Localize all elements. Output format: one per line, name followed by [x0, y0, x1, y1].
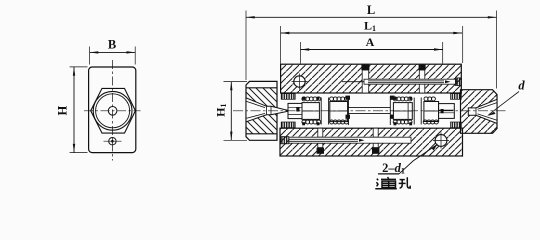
right fitting cone bore — [468, 99, 497, 123]
horizontal centerline — [84, 110, 141, 112]
top passage — [364, 79, 456, 84]
bottom channel left lower part — [318, 143, 323, 147]
right fitting body — [461, 90, 498, 134]
lower plate — [280, 128, 463, 156]
P1 spring retainer blocks — [302, 97, 305, 100]
svg-text:B: B — [108, 37, 116, 51]
dim B line — [90, 51, 136, 53]
svg-text:L: L — [367, 3, 375, 17]
top plug right (black) — [419, 65, 426, 71]
top passage lead-in line — [342, 81, 364, 83]
2-d1 leader arrowhead — [431, 144, 438, 151]
top pilot channel right (white) — [419, 70, 425, 93]
top passage rod tip — [445, 80, 451, 83]
bottom passage plug left (threads) — [281, 137, 289, 144]
bottom passage rod — [289, 139, 358, 141]
left fitting cone bore — [246, 98, 288, 122]
svg-text:A: A — [366, 35, 375, 49]
right cone inner lines — [478, 103, 498, 121]
cartridge end faces — [349, 96, 391, 125]
mount hole bottom (right) — [435, 135, 447, 147]
port outer circle — [93, 91, 132, 130]
P1 spring top — [302, 97, 321, 101]
poppet P1 — [302, 103, 319, 120]
dim H line — [73, 67, 75, 153]
dim B arrowheads — [90, 51, 99, 53]
dim L line — [246, 16, 497, 18]
dim H1 line — [230, 82, 232, 141]
poppet P2 — [330, 102, 348, 122]
top passage rod — [368, 81, 444, 83]
P2 spring top — [330, 97, 349, 101]
left seat threads top — [281, 94, 295, 100]
left plug body — [288, 103, 302, 118]
port inner circle — [96, 94, 130, 128]
right seat threads top — [451, 94, 462, 100]
d leader arrowhead — [487, 112, 496, 116]
left cone inner lines — [246, 101, 265, 118]
left fitting hatch — [246, 88, 277, 134]
mount hole top (left) — [294, 76, 305, 87]
mount hole bottom crosshair — [433, 133, 449, 149]
svg-text:H: H — [56, 105, 70, 115]
top plug left (black) — [361, 65, 369, 71]
dim H1 extension lines — [224, 82, 248, 141]
bottom plug left (black) — [317, 148, 324, 154]
dim A line — [301, 49, 443, 51]
lower hole — [109, 138, 116, 145]
svg-text:d: d — [518, 79, 525, 93]
poppet P3 — [393, 103, 412, 120]
vertical centerline — [111, 60, 113, 161]
top pilot channel left (white) — [362, 70, 369, 93]
dim A extension lines — [301, 42, 443, 64]
left fitting hex lines — [246, 88, 277, 134]
right plug pin — [441, 109, 444, 113]
dim L extension lines — [246, 11, 497, 89]
right seat threads bottom — [451, 122, 462, 128]
dim L1 extension line — [281, 26, 463, 64]
P3 spring top — [393, 97, 412, 101]
body outline (front view) — [89, 67, 136, 153]
bottom channel left upper part — [318, 128, 323, 137]
retainer lines between P3 P4 — [414, 98, 421, 125]
label tong (通) — [375, 177, 397, 189]
poppet P4 — [424, 102, 439, 122]
label kong (孔) — [399, 177, 411, 188]
leader to bottom hole — [399, 145, 437, 174]
P3 spring retainer blocks — [394, 97, 397, 100]
dim L1 line — [281, 32, 462, 34]
upper plate — [281, 64, 462, 93]
main centerline — [233, 110, 506, 112]
dim L1 arrowheads — [281, 32, 290, 34]
bottom channel right lower part — [373, 143, 378, 147]
P1 spring bottom — [302, 120, 321, 124]
lower hole crosshair — [104, 140, 122, 142]
center hole — [108, 107, 117, 116]
top passage plug (threads) — [455, 78, 461, 86]
P2 spring bottom — [330, 120, 349, 124]
dim H arrowheads — [73, 67, 75, 76]
left plug pin — [296, 107, 299, 111]
dim H extension lines — [70, 67, 88, 153]
dim L arrowheads — [246, 16, 255, 18]
bottom channel right upper part — [373, 128, 378, 137]
P4 spring bottom — [423, 120, 438, 124]
retainer lines between P1 P2 — [321, 98, 328, 125]
left seat threads bottom — [281, 122, 295, 128]
left fitting body — [246, 81, 277, 140]
piston rod — [348, 107, 390, 113]
hex nut — [91, 88, 136, 133]
P4 spring top — [424, 97, 435, 101]
bottom passage — [289, 137, 411, 143]
bottom passage rod tip — [359, 139, 365, 142]
P3 spring bottom — [393, 120, 412, 124]
dim A arrowheads — [301, 48, 310, 50]
right plug body — [439, 104, 455, 119]
piston rod end collars — [346, 96, 351, 100]
dim B extension lines — [90, 47, 136, 65]
dim H1 arrowheads — [230, 82, 232, 91]
bottom plug right (black) — [372, 148, 379, 154]
mount hole top crosshair — [292, 74, 308, 90]
